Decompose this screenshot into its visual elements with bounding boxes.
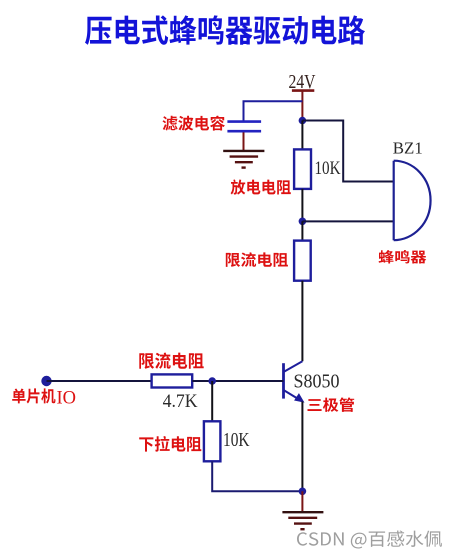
node: junction of base wire and pulldown branch xyxy=(208,377,216,385)
label 滤波电容 xyxy=(163,116,225,131)
node: junction at ground xyxy=(299,488,307,496)
label 放电电阻 xyxy=(231,180,291,195)
label 蜂鸣器 xyxy=(379,250,427,264)
svg-text:10K: 10K xyxy=(315,158,341,179)
watermark CSDN @百感水佩 xyxy=(297,531,442,549)
svg-text:4.7K: 4.7K xyxy=(163,391,198,412)
svg-text:10K: 10K xyxy=(223,430,250,451)
svg-text:S8050: S8050 xyxy=(294,371,340,392)
wire: junction to ground symbol xyxy=(301,491,303,511)
node: junction of rail and buzzer bottom lead xyxy=(299,218,307,226)
wire: resistor R4 to ground rail xyxy=(212,461,302,491)
pin: resistor R1 bottom pin / wire to junction xyxy=(301,189,303,221)
pin: resistor R1 top pin xyxy=(301,121,303,150)
label 限流电阻 (base) xyxy=(139,353,203,369)
transistor Q1 S8050 xyxy=(284,361,304,402)
title 压电式蜂鸣器驱动电路 xyxy=(85,15,365,44)
label 三极管 xyxy=(308,398,355,412)
wire: resistor R3 to transistor base xyxy=(192,380,283,382)
label 单片机IO xyxy=(12,388,55,403)
wire: junction to buzzer bottom lead xyxy=(302,220,393,222)
node: junction of 24V rail and buzzer branch xyxy=(299,117,307,125)
wire: emitter to ground rail xyxy=(301,402,303,492)
wire: junction to buzzer top lead xyxy=(302,121,393,182)
svg-text:BZ1: BZ1 xyxy=(393,138,423,157)
wire: junction to resistor R4 xyxy=(211,381,213,421)
resistor R3 限流电阻 4.7K body xyxy=(152,374,193,387)
label 限流电阻 (rail) xyxy=(226,252,288,267)
capacitor C1 滤波电容 plates xyxy=(227,122,261,132)
ground (bottom) xyxy=(282,512,323,529)
ground (under filter capacitor) xyxy=(223,151,264,168)
power port 24V xyxy=(289,72,316,118)
resistor R4 下拉电阻 10K body xyxy=(204,421,221,461)
buzzer BZ1 xyxy=(394,161,431,241)
wire: resistor R2 to transistor collector xyxy=(301,281,303,362)
svg-text:IO: IO xyxy=(57,387,77,408)
terminal 单片机IO xyxy=(41,376,51,386)
resistor R2 限流电阻 body xyxy=(294,241,311,281)
label 下拉电阻 xyxy=(139,436,201,452)
wire: capacitor to ground xyxy=(243,132,245,150)
wire: junction to resistor R2 xyxy=(301,221,303,240)
wire: terminal to resistor R3 xyxy=(47,380,152,382)
resistor R1 放电电阻 10K body xyxy=(294,149,311,189)
wire: 24V rail to filter-capacitor branch xyxy=(244,101,303,120)
